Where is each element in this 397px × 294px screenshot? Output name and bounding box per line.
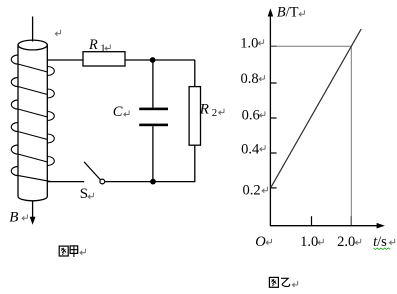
svg-text:B/T: B/T (277, 4, 299, 20)
node A junction dot (150, 57, 156, 63)
coil winding turn 6 (11, 166, 51, 181)
svg-text:0.2: 0.2 (243, 183, 261, 199)
paragraph mark after R2 (219, 109, 224, 115)
paragraph mark y 0.6 (260, 111, 265, 117)
coil winding turn 1 (11, 55, 54, 76)
node B junction dot (150, 179, 156, 185)
paragraph mark after O (266, 239, 271, 245)
y tick 0.4 (270, 152, 276, 154)
wire capacitor bottom lead (152, 126, 154, 181)
wire solenoid to switch (48, 181, 85, 183)
B field arrow at bottom (30, 201, 36, 225)
paragraph mark x 2.0 (355, 239, 360, 245)
coil winding turn 5 (11, 145, 54, 166)
guide line horizontal at 1.0 (271, 45, 351, 47)
svg-text:t/s: t/s (373, 234, 387, 250)
paragraph mark y 0.4 (260, 145, 265, 151)
y tick 1.0 (270, 45, 276, 47)
svg-text:R: R (88, 37, 98, 53)
coil winding turn 2 (11, 77, 54, 98)
y tick 0.6 (270, 117, 276, 119)
paragraph mark after caption yi (292, 281, 297, 287)
B(t) line (271, 29, 361, 188)
paragraph mark x 1.0 (318, 239, 323, 245)
y tick 0.8 (270, 82, 276, 84)
capacitor C top plate (139, 108, 168, 111)
x tick 1.0 (311, 216, 313, 226)
wire node A down to R2 top (194, 60, 196, 87)
caption 图甲 char 甲 (70, 246, 78, 257)
paragraph mark y 1.0 (258, 39, 263, 45)
svg-text:2.0: 2.0 (337, 234, 355, 250)
paragraph mark after t/s (389, 239, 394, 245)
paragraph mark after C (124, 111, 129, 117)
wire R2 bottom lead (194, 145, 196, 182)
svg-text:0.8: 0.8 (241, 71, 259, 87)
y-axis arrowhead (268, 8, 274, 16)
svg-text:0.6: 0.6 (242, 107, 260, 123)
paragraph mark after R1 (105, 45, 110, 51)
svg-text:0.4: 0.4 (241, 141, 260, 157)
svg-text:R: R (199, 101, 209, 117)
svg-text:2: 2 (212, 107, 217, 119)
paragraph mark top (55, 30, 60, 36)
solenoid cylinder body (18, 40, 47, 201)
paragraph mark after B (22, 214, 27, 220)
caption 图乙 char 图 (269, 277, 278, 287)
wire switch to node B (105, 181, 195, 183)
x tick 2.0 (350, 216, 352, 226)
capacitor C bottom plate (139, 124, 168, 127)
svg-text:B: B (9, 210, 18, 226)
caption 图甲 char 图 (59, 246, 68, 256)
svg-text:S: S (80, 186, 88, 202)
paragraph mark y 0.2 (262, 187, 267, 193)
graph x-axis t (270, 225, 378, 227)
graph y-axis B/T (269, 12, 271, 226)
svg-text:1.0: 1.0 (240, 35, 258, 51)
svg-text:1.0: 1.0 (300, 234, 318, 250)
paragraph mark after B/T (299, 10, 304, 16)
wire R1 to node A (125, 59, 195, 61)
y tick 0.2 (270, 187, 276, 189)
resistor R2 (189, 87, 200, 146)
paragraph mark after S (88, 193, 93, 199)
spellcheck squiggle under t/s (374, 248, 391, 250)
solenoid top stem wire (32, 17, 34, 42)
resistor R1 (83, 52, 125, 66)
x-axis arrowhead (377, 223, 385, 229)
caption 图乙 char 乙 (281, 278, 290, 286)
wire capacitor top lead (152, 60, 154, 108)
svg-text:O: O (255, 234, 266, 250)
paragraph mark after caption jia (80, 249, 85, 255)
coil winding turn 4 (11, 122, 54, 143)
paragraph mark y 0.8 (259, 75, 264, 81)
coil winding turn 3 (11, 100, 54, 121)
switch S lever (84, 162, 101, 180)
switch S pivot circle (100, 179, 105, 184)
wire solenoid to R1 (48, 59, 84, 61)
svg-text:C: C (113, 104, 123, 120)
guide line vertical at 2.0 (350, 47, 352, 225)
